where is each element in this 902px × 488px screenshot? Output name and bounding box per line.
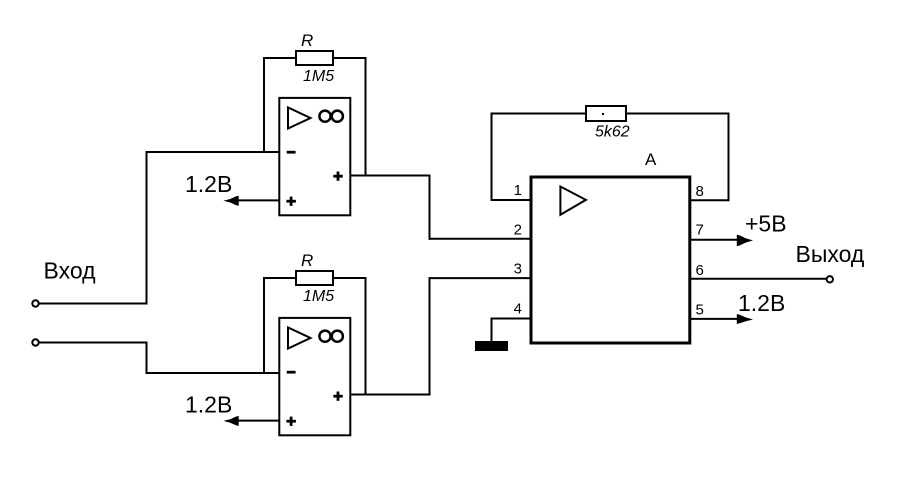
svg-text:1.2В: 1.2В bbox=[185, 392, 232, 418]
svg-text:А: А bbox=[645, 150, 657, 169]
resistor R3 center dot bbox=[602, 113, 604, 115]
wire R1 right stub bbox=[333, 57, 367, 59]
svg-text:4: 4 bbox=[514, 301, 522, 318]
wire input2 dropper bbox=[146, 342, 148, 375]
wire to pin 2 bbox=[429, 238, 532, 240]
wire pin 6 output bbox=[690, 278, 827, 280]
IC A amp triangle bbox=[560, 187, 586, 215]
svg-text:2: 2 bbox=[514, 221, 522, 238]
op-amp U1 bbox=[279, 98, 350, 215]
wire pin 8 bbox=[690, 199, 730, 201]
wire R3 right horizontal bbox=[626, 113, 730, 115]
svg-text:5: 5 bbox=[696, 302, 704, 319]
bias arrow U2 (1.2V) bbox=[223, 416, 280, 426]
wire pin 4 ground drop bbox=[491, 318, 493, 342]
svg-text:3: 3 bbox=[514, 261, 522, 278]
IC A block bbox=[531, 177, 690, 343]
svg-text:1.2В: 1.2В bbox=[185, 171, 232, 197]
wire U2 output rise bbox=[429, 277, 431, 395]
wire R1 feedback left vertical bbox=[263, 57, 265, 153]
svg-text:R: R bbox=[301, 251, 313, 270]
wire R1 feedback right vertical bbox=[365, 57, 367, 177]
bias arrow U1 (1.2V) bbox=[223, 196, 280, 206]
wire R2 feedback left vertical bbox=[263, 277, 265, 374]
svg-text:Вход: Вход bbox=[44, 258, 97, 284]
svg-text:1.2В: 1.2В bbox=[738, 290, 785, 316]
svg-text:7: 7 bbox=[696, 222, 704, 239]
wire R3 feedback left vertical bbox=[491, 113, 493, 202]
svg-text:+5В: +5В bbox=[745, 211, 787, 237]
resistor R2 bbox=[296, 271, 333, 285]
wire to pin 3 bbox=[429, 277, 532, 279]
input terminal J1 (top) bbox=[32, 300, 38, 306]
svg-text:1M5: 1M5 bbox=[303, 288, 334, 305]
svg-text:Выход: Выход bbox=[796, 241, 865, 267]
wire input1 riser bbox=[146, 151, 148, 305]
svg-text:6: 6 bbox=[696, 262, 704, 279]
svg-text:5k62: 5k62 bbox=[595, 124, 630, 141]
wire U2 output bbox=[350, 394, 431, 396]
resistor R3 bbox=[586, 106, 626, 121]
wire U1 inverting input bbox=[147, 151, 281, 153]
svg-text:R: R bbox=[301, 31, 313, 50]
wire R3 left horizontal bbox=[491, 113, 587, 115]
wire R3 feedback right vertical bbox=[728, 113, 730, 202]
wire pin 1 bbox=[491, 199, 532, 201]
wire R2 left stub bbox=[263, 277, 296, 279]
op-amp U2 bbox=[279, 318, 350, 435]
resistor R1 bbox=[296, 51, 333, 65]
wire pin 4 bbox=[491, 318, 532, 320]
arrow pin 7 (+5V) bbox=[690, 235, 753, 246]
wire R2 right stub bbox=[333, 277, 367, 279]
wire input1 horizontal bbox=[39, 303, 148, 305]
svg-text:8: 8 bbox=[696, 183, 704, 200]
wire U2 inverting input bbox=[146, 372, 281, 374]
wire U1 output bbox=[350, 175, 431, 177]
ground bbox=[475, 341, 508, 351]
svg-text:1: 1 bbox=[514, 182, 522, 199]
wire input2 horizontal bbox=[39, 342, 148, 344]
output terminal J3 bbox=[827, 276, 833, 282]
wire R1 left stub bbox=[263, 57, 296, 59]
arrow pin 5 (1.2V) bbox=[690, 314, 753, 324]
wire U1 output drop bbox=[429, 175, 431, 240]
wire R2 feedback right vertical bbox=[365, 277, 367, 396]
input terminal J2 (bottom) bbox=[32, 339, 38, 345]
svg-text:1M5: 1M5 bbox=[303, 68, 334, 85]
